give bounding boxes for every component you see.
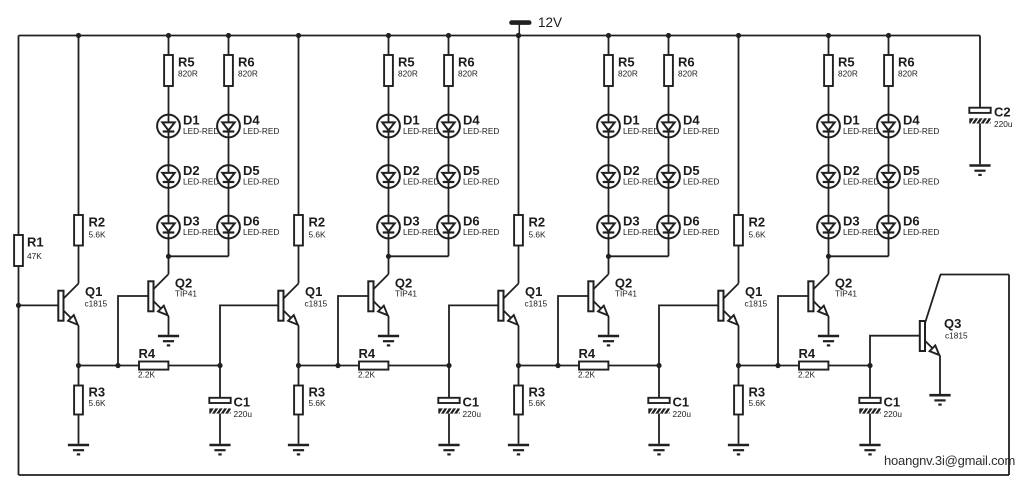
ground R3 stage 1 [68, 445, 89, 454]
wire junction to Q2 collector stage 3 [608, 256, 610, 274]
resistor R6 820R stage 3 [664, 55, 673, 86]
resistor R3 5.6K stage 3 [514, 386, 523, 415]
wire Q3 emitter to ground [939, 356, 941, 394]
transistor Q3 c1815 [920, 321, 940, 356]
LED D2 LED-RED stage 2 [377, 165, 400, 188]
wire C1 to ground stage 1 [219, 414, 221, 444]
svg-text:C2: C2 [994, 104, 1011, 119]
resistor R6 820R stage 4 [884, 55, 893, 86]
svg-text:LED-RED: LED-RED [683, 177, 719, 187]
svg-text:R4: R4 [139, 346, 156, 361]
junction Q2 base on R4 wire stage 4 [775, 363, 780, 368]
wire bottom feedback rail [19, 474, 1010, 476]
node Q1 emitter / R4 / R3 stage 2 [296, 363, 301, 368]
svg-text:LED-RED: LED-RED [903, 177, 939, 187]
LED D2 LED-RED stage 3 [597, 165, 620, 188]
svg-text:LED-RED: LED-RED [243, 126, 279, 136]
LED D6 LED-RED stage 2 [437, 216, 460, 239]
wire rail to R6 stage 1 [228, 36, 230, 56]
LED D3 LED-RED stage 2 [377, 216, 400, 239]
svg-text:C1: C1 [673, 395, 690, 410]
svg-text:R5: R5 [838, 55, 855, 70]
resistor R1 47K [14, 235, 23, 266]
wire Q2 base stage 1 [118, 296, 148, 366]
wire LED cathodes join stage 1 [169, 255, 229, 257]
transistor Q2 TIP41 stage 4 [808, 274, 828, 316]
wire C1 to ground stage 2 [448, 414, 450, 444]
junction LED cathodes stage 3 [606, 254, 611, 259]
resistor R3 5.6K stage 2 [294, 386, 303, 415]
svg-text:c1815: c1815 [305, 299, 328, 309]
svg-text:Q1: Q1 [745, 284, 762, 299]
LED D2 LED-RED stage 4 [817, 165, 840, 188]
wire R4 row stage 4 [739, 365, 871, 367]
LED D3 LED-RED stage 4 [817, 216, 840, 239]
svg-text:Q3: Q3 [944, 316, 961, 331]
resistor R2 5.6K stage 2 [294, 215, 303, 246]
LED D5 LED-RED stage 2 [437, 165, 460, 188]
wire Q2 base stage 3 [558, 296, 588, 366]
resistor R6 820R stage 1 [224, 55, 233, 86]
wire Q1 emitter down stage 3 [518, 326, 520, 366]
svg-text:c1815: c1815 [525, 299, 548, 309]
svg-text:R4: R4 [799, 346, 816, 361]
svg-text:2.2K: 2.2K [358, 369, 376, 379]
svg-text:c1815: c1815 [945, 331, 968, 341]
svg-text:R6: R6 [898, 55, 915, 70]
wire LED cathodes join stage 2 [389, 255, 449, 257]
svg-text:LED-RED: LED-RED [183, 177, 219, 187]
wire R3 column stage 4 [738, 366, 740, 386]
svg-text:C1: C1 [884, 395, 901, 410]
svg-text:LED-RED: LED-RED [843, 227, 879, 237]
LED D4 LED-RED stage 4 [877, 115, 900, 138]
wire Q2 emitter to ground stage 3 [608, 316, 610, 335]
junction top rail R6 stage 4 [886, 33, 891, 38]
capacitor C1 220u stage 2 [438, 398, 461, 414]
ground R3 stage 3 [508, 445, 529, 454]
svg-text:R6: R6 [458, 55, 475, 70]
resistor R5 820R stage 2 [384, 55, 393, 86]
wire +12V top rail [19, 35, 981, 37]
svg-text:Q1: Q1 [305, 284, 322, 299]
transistor Q2 TIP41 stage 3 [588, 274, 608, 316]
svg-text:820R: 820R [398, 69, 418, 79]
svg-text:5.6K: 5.6K [309, 230, 327, 240]
junction top rail R2 stage 4 [736, 33, 741, 38]
svg-text:5.6K: 5.6K [529, 230, 547, 240]
svg-text:820R: 820R [458, 69, 478, 79]
junction R4 to C1 stage 2 [446, 363, 451, 368]
LED D2 LED-RED stage 1 [157, 165, 180, 188]
capacitor C2 220u [969, 108, 992, 124]
transistor Q1 c1815 stage 4 [718, 284, 738, 326]
svg-text:R6: R6 [238, 55, 255, 70]
resistor R2 5.6K stage 1 [74, 215, 83, 246]
ground Q2 emitter stage 1 [158, 336, 179, 345]
junction Q2 base on R4 wire stage 2 [335, 363, 340, 368]
wire R2 to Q1 collector stage 1 [78, 246, 80, 284]
svg-text:LED-RED: LED-RED [403, 227, 439, 237]
wire R4 row stage 3 [519, 365, 660, 367]
svg-text:LED-RED: LED-RED [243, 177, 279, 187]
LED D6 LED-RED stage 3 [657, 216, 680, 239]
wire R5-D1-D2-D3 column stage 3 [608, 86, 610, 256]
stage 4: wire R2 column [738, 36, 740, 216]
junction top rail R2 stage 3 [516, 33, 521, 38]
junction top rail R6 stage 1 [226, 33, 231, 38]
stage 3: wire R2 column [518, 36, 520, 216]
svg-text:2.2K: 2.2K [138, 369, 156, 379]
junction top rail R5 stage 3 [606, 33, 611, 38]
junction top rail R5 stage 2 [386, 33, 391, 38]
svg-text:R5: R5 [618, 55, 635, 70]
wire C1 to ground stage 3 [658, 414, 660, 444]
wire LED cathodes join stage 4 [829, 255, 889, 257]
svg-text:5.6K: 5.6K [529, 398, 547, 408]
resistor R3 5.6K stage 4 [734, 386, 743, 415]
wire C1 top / coupling to next stage 3 [659, 305, 718, 397]
wire junction to Q2 collector stage 2 [388, 256, 390, 274]
svg-text:2.2K: 2.2K [798, 369, 816, 379]
svg-text:R6: R6 [678, 55, 695, 70]
svg-text:LED-RED: LED-RED [623, 177, 659, 187]
junction R4 to C1 stage 1 [217, 363, 222, 368]
svg-text:LED-RED: LED-RED [683, 126, 719, 136]
wire R3 to ground stage 2 [298, 415, 300, 444]
ground Q2 emitter stage 2 [378, 336, 399, 345]
wire R2 to Q1 collector stage 2 [298, 246, 300, 284]
resistor R3 5.6K stage 1 [74, 386, 83, 415]
junction 12V rail [516, 33, 521, 38]
wire Q2 base stage 4 [778, 296, 808, 366]
resistor R6 820R stage 2 [444, 55, 453, 86]
stage 1: wire R2 column [78, 36, 80, 216]
LED D1 LED-RED stage 3 [597, 115, 620, 138]
wire R3 column stage 1 [78, 366, 80, 386]
svg-text:LED-RED: LED-RED [463, 177, 499, 187]
wire C1 top / coupling to next stage 2 [449, 305, 498, 397]
wire Q2 emitter to ground stage 4 [828, 316, 830, 335]
capacitor C1 220u stage 1 [209, 398, 232, 414]
resistor R5 820R stage 1 [164, 55, 173, 86]
junction top rail R2 stage 1 [76, 33, 81, 38]
LED D4 LED-RED stage 2 [437, 115, 460, 138]
junction Q2 base on R4 wire stage 1 [115, 363, 120, 368]
wire R6-D4-D5-D6 column stage 3 [668, 86, 670, 256]
svg-text:220u: 220u [234, 409, 253, 419]
wire Q3 collector up [925, 275, 940, 323]
svg-text:R5: R5 [178, 55, 195, 70]
svg-text:5.6K: 5.6K [749, 398, 767, 408]
svg-text:LED-RED: LED-RED [623, 126, 659, 136]
svg-text:R4: R4 [359, 346, 376, 361]
junction top rail R6 stage 2 [446, 33, 451, 38]
svg-text:TIP41: TIP41 [175, 289, 198, 299]
junction LED cathodes stage 1 [166, 254, 171, 259]
svg-text:5.6K: 5.6K [89, 398, 107, 408]
svg-text:5.6K: 5.6K [749, 230, 767, 240]
junction top rail R5 stage 4 [826, 33, 831, 38]
wire Q2 emitter to ground stage 1 [168, 316, 170, 335]
ground C1 stage 4 [859, 445, 880, 454]
svg-text:47K: 47K [27, 251, 42, 261]
wire R3 to ground stage 1 [78, 415, 80, 444]
transistor Q2 TIP41 stage 2 [368, 274, 388, 316]
resistor R5 820R stage 3 [604, 55, 613, 86]
wire R2 to Q1 collector stage 3 [518, 246, 520, 284]
LED D5 LED-RED stage 4 [877, 165, 900, 188]
ground Q2 emitter stage 3 [598, 336, 619, 345]
svg-text:R5: R5 [398, 55, 415, 70]
svg-text:LED-RED: LED-RED [843, 177, 879, 187]
svg-text:5.6K: 5.6K [309, 398, 327, 408]
ground C2 [969, 166, 990, 175]
power terminal 12V [512, 23, 530, 36]
LED D5 LED-RED stage 1 [217, 165, 240, 188]
transistor Q1 c1815 stage 2 [278, 284, 298, 326]
LED D6 LED-RED stage 1 [217, 216, 240, 239]
wire C1 to ground stage 4 [869, 414, 871, 444]
wire Q1 emitter down stage 1 [78, 326, 80, 366]
wire Q3 collector to right edge [940, 274, 1009, 276]
svg-text:220u: 220u [994, 119, 1013, 129]
svg-text:Q1: Q1 [525, 284, 542, 299]
junction LED cathodes stage 2 [386, 254, 391, 259]
LED D5 LED-RED stage 3 [657, 165, 680, 188]
wire rail to R6 stage 2 [448, 36, 450, 56]
wire LED cathodes join stage 3 [609, 255, 669, 257]
wire R6-D4-D5-D6 column stage 4 [888, 86, 890, 256]
wire Q2 emitter to ground stage 2 [388, 316, 390, 335]
svg-text:820R: 820R [898, 69, 918, 79]
wire R6-D4-D5-D6 column stage 2 [448, 86, 450, 256]
svg-text:LED-RED: LED-RED [403, 177, 439, 187]
svg-text:C1: C1 [463, 395, 480, 410]
svg-text:hoangnv.3i@gmail.com: hoangnv.3i@gmail.com [884, 453, 1015, 468]
svg-text:R2: R2 [749, 215, 766, 230]
svg-text:12V: 12V [538, 15, 562, 30]
wire R3 to ground stage 3 [518, 415, 520, 444]
wire C2 to ground [979, 124, 981, 165]
LED D4 LED-RED stage 1 [217, 115, 240, 138]
node Q1 emitter / R4 / R3 stage 3 [516, 363, 521, 368]
ground C1 stage 2 [438, 445, 459, 454]
ground Q3 emitter [929, 395, 950, 404]
svg-text:LED-RED: LED-RED [403, 126, 439, 136]
svg-text:LED-RED: LED-RED [903, 227, 939, 237]
junction top rail R2 stage 2 [296, 33, 301, 38]
wire R3 to ground stage 4 [738, 415, 740, 444]
node Q1 emitter / R4 / R3 stage 4 [736, 363, 741, 368]
junction top rail R5 stage 1 [166, 33, 171, 38]
wire R5-D1-D2-D3 column stage 1 [168, 86, 170, 256]
svg-text:820R: 820R [838, 69, 858, 79]
wire R3 column stage 3 [518, 366, 520, 386]
wire R4 row stage 1 [79, 365, 221, 367]
svg-text:LED-RED: LED-RED [463, 227, 499, 237]
wire left feedback edge [18, 36, 20, 476]
svg-text:R4: R4 [579, 346, 596, 361]
svg-text:R2: R2 [309, 215, 326, 230]
LED D1 LED-RED stage 1 [157, 115, 180, 138]
LED D6 LED-RED stage 4 [877, 216, 900, 239]
LED D3 LED-RED stage 1 [157, 216, 180, 239]
ground R3 stage 4 [728, 445, 749, 454]
wire rail to R5 stage 3 [608, 36, 610, 56]
capacitor C1 220u stage 3 [648, 398, 671, 414]
LED D4 LED-RED stage 3 [657, 115, 680, 138]
wire R3 column stage 2 [298, 366, 300, 386]
wire R5-D1-D2-D3 column stage 4 [828, 86, 830, 256]
wire C1 top / coupling to next stage 1 [220, 305, 278, 397]
transistor Q2 TIP41 stage 1 [148, 274, 168, 316]
resistor R5 820R stage 4 [824, 55, 833, 86]
svg-text:R1: R1 [27, 235, 44, 250]
wire rail to R6 stage 3 [668, 36, 670, 56]
wire rail to R5 stage 2 [388, 36, 390, 56]
svg-text:2.2K: 2.2K [578, 369, 596, 379]
junction LED cathodes stage 4 [826, 254, 831, 259]
wire R2 to Q1 collector stage 4 [738, 246, 740, 284]
svg-text:220u: 220u [884, 409, 903, 419]
svg-text:220u: 220u [463, 409, 482, 419]
svg-text:820R: 820R [178, 69, 198, 79]
svg-text:R2: R2 [529, 215, 546, 230]
resistor R4 2.2K stage 2 [359, 362, 388, 370]
svg-text:c1815: c1815 [745, 299, 768, 309]
wire Q2 base stage 2 [338, 296, 368, 366]
svg-text:820R: 820R [678, 69, 698, 79]
svg-text:820R: 820R [238, 69, 258, 79]
wire R4 row stage 2 [299, 365, 450, 367]
wire R5-D1-D2-D3 column stage 2 [388, 86, 390, 256]
svg-text:c1815: c1815 [85, 299, 108, 309]
wire junction to Q2 collector stage 4 [828, 256, 830, 274]
svg-text:C1: C1 [234, 395, 251, 410]
svg-text:LED-RED: LED-RED [843, 126, 879, 136]
svg-text:LED-RED: LED-RED [243, 227, 279, 237]
svg-text:LED-RED: LED-RED [183, 227, 219, 237]
wire rail to R5 stage 1 [168, 36, 170, 56]
svg-text:LED-RED: LED-RED [683, 227, 719, 237]
junction R4 to C1 stage 4 [867, 363, 872, 368]
wire C1 top / coupling to Q3 base [870, 336, 920, 398]
wire R6-D4-D5-D6 column stage 1 [228, 86, 230, 256]
node Q1 base / feedback junction [16, 303, 21, 308]
junction Q2 base on R4 wire stage 3 [555, 363, 560, 368]
wire rail to R6 stage 4 [888, 36, 890, 56]
LED D3 LED-RED stage 3 [597, 216, 620, 239]
resistor R4 2.2K stage 1 [139, 362, 168, 370]
resistor R2 5.6K stage 4 [734, 215, 743, 246]
resistor R4 2.2K stage 4 [799, 362, 828, 370]
transistor Q1 c1815 stage 1 [58, 284, 78, 326]
wire C2 column [979, 36, 981, 108]
svg-text:220u: 220u [673, 409, 692, 419]
stage 2: wire R2 column [298, 36, 300, 216]
wire Q1 emitter down stage 4 [738, 326, 740, 366]
svg-text:R2: R2 [89, 215, 106, 230]
resistor R4 2.2K stage 3 [579, 362, 608, 370]
ground Q2 emitter stage 4 [818, 336, 839, 345]
ground C1 stage 3 [648, 445, 669, 454]
resistor R2 5.6K stage 3 [514, 215, 523, 246]
transistor Q1 c1815 stage 3 [498, 284, 518, 326]
svg-text:5.6K: 5.6K [89, 230, 107, 240]
capacitor C1 220u stage 4 [859, 398, 882, 414]
wire R1 to Q1 base [19, 304, 59, 306]
svg-text:TIP41: TIP41 [395, 289, 418, 299]
svg-text:LED-RED: LED-RED [183, 126, 219, 136]
svg-text:LED-RED: LED-RED [623, 227, 659, 237]
LED D1 LED-RED stage 2 [377, 115, 400, 138]
ground R3 stage 2 [288, 445, 309, 454]
svg-text:TIP41: TIP41 [835, 289, 858, 299]
svg-text:Q1: Q1 [85, 284, 102, 299]
svg-text:820R: 820R [618, 69, 638, 79]
junction top rail R6 stage 3 [666, 33, 671, 38]
wire right feedback edge [1008, 275, 1010, 476]
svg-text:LED-RED: LED-RED [463, 126, 499, 136]
wire junction to Q2 collector stage 1 [168, 256, 170, 274]
LED D1 LED-RED stage 4 [817, 115, 840, 138]
junction R4 to C1 stage 3 [656, 363, 661, 368]
node Q1 emitter / R4 / R3 stage 1 [76, 363, 81, 368]
wire rail to R5 stage 4 [828, 36, 830, 56]
ground C1 stage 1 [209, 445, 230, 454]
svg-text:LED-RED: LED-RED [903, 126, 939, 136]
svg-text:TIP41: TIP41 [615, 289, 638, 299]
wire Q1 emitter down stage 2 [298, 326, 300, 366]
